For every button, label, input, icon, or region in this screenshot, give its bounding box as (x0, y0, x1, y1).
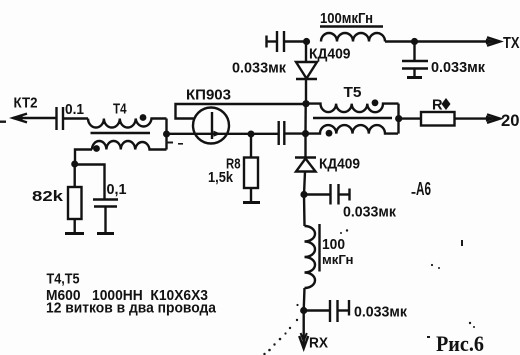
svg-text:R: R (432, 98, 443, 114)
wire D down to L2 (303, 195, 306, 227)
svg-text:100: 100 (322, 237, 345, 253)
wire R1 to ground (73, 219, 75, 234)
wire B down to C (304, 104, 307, 134)
svg-text:20: 20 (501, 111, 520, 130)
wire C3 to node C (284, 132, 305, 134)
wire T5 right side vertical (397, 104, 399, 134)
svg-text:КП903: КП903 (186, 88, 231, 104)
svg-text:100мкГн: 100мкГн (320, 11, 373, 27)
wire C4 to T4 (63, 117, 88, 119)
svg-text:А6: А6 (416, 179, 431, 199)
polarity dot T5 primary (372, 99, 379, 106)
wire E down to RX arrow (303, 311, 305, 349)
svg-text:ТХ: ТХ (503, 35, 520, 52)
wire I down to R8 (250, 134, 252, 158)
junction B (302, 100, 309, 107)
wire T4 secondary left down (75, 150, 92, 165)
resistor R2 R (421, 112, 455, 126)
channel wire through KP903 (194, 133, 230, 135)
wire C5 to ground (104, 207, 106, 234)
wire rail transistor to C3 (229, 133, 279, 135)
junction I to R8 (248, 131, 255, 138)
wire rail G to transistor (167, 133, 194, 135)
scan noise specks (0, 121, 475, 355)
junction J (395, 115, 402, 122)
svg-text:0.033мк: 0.033мк (354, 305, 408, 321)
capacitor C5 0.1 (shunt) (93, 200, 118, 207)
svg-text:Т5: Т5 (344, 85, 362, 101)
wire KT2 to C4 (13, 117, 56, 119)
polarity dot T4 primary (140, 114, 147, 121)
transformer T4 secondary winding (92, 141, 167, 150)
capacitor C7 0.033 (at RX) (304, 300, 349, 322)
resistor R8 1.5k (244, 158, 258, 189)
ground bar under C5 (97, 232, 114, 235)
choke L1 100uH (top) (321, 33, 385, 42)
resistor R1 82k (68, 187, 82, 219)
svg-text:0.1: 0.1 (65, 102, 84, 118)
junction D (300, 191, 307, 198)
transformer T5 secondary winding (306, 125, 398, 134)
choke L2 100uH (vertical) (305, 226, 316, 288)
junction A top rail (303, 38, 310, 45)
diode VD2 KD409 (pointing up) (295, 134, 316, 195)
capacitor C3 (series on rail) (279, 121, 285, 145)
transformer T4 primary winding (88, 119, 167, 128)
capacitor C4 0.1 (series, left) (57, 107, 89, 130)
svg-text:Т4: Т4 (113, 102, 127, 118)
core of T4 (91, 132, 151, 135)
junction E (300, 307, 307, 314)
node 20 arrow (487, 114, 500, 122)
wire F to TX arrow (415, 40, 500, 42)
node TX arrow (487, 37, 500, 45)
capacitor C6 0.033 (to A6) (304, 184, 350, 205)
junction C center rail (302, 130, 309, 137)
svg-text:Рис.6: Рис.6 (436, 331, 484, 355)
transistor U1 KP903 body (193, 108, 229, 144)
svg-text:82k: 82k (32, 189, 64, 205)
ground bar under C2 (407, 76, 422, 79)
gate lead hook from top (176, 104, 307, 119)
wire R2 to 20 arrow (455, 117, 500, 119)
wire L1 to junction F (385, 40, 414, 42)
wire H down to R1 (73, 164, 75, 187)
core of T5 (313, 117, 392, 120)
svg-text:0,1: 0,1 (107, 182, 127, 198)
diode VD1 KD409 (pointing down) (296, 42, 317, 104)
svg-text:0.033мк: 0.033мк (232, 61, 287, 77)
capacitor C2 0.033 (shunt at TX) (402, 42, 428, 78)
svg-text:КТ2: КТ2 (14, 96, 38, 112)
junction H (71, 161, 78, 168)
core line of L1 (320, 25, 383, 27)
ground bar under R8 (243, 201, 260, 204)
junction G T4 to rail (163, 131, 170, 138)
svg-text:КД409: КД409 (319, 157, 360, 173)
wire L2 to junction E (303, 288, 306, 311)
node RX arrow (299, 336, 308, 349)
wire R8 to ground (250, 188, 252, 203)
svg-text:12 витков в два провода: 12 витков в два провода (46, 301, 217, 317)
svg-text:1,5k: 1,5k (208, 170, 234, 186)
diamond mark after R (442, 98, 451, 110)
ground bar under R1 (65, 232, 84, 235)
gate bar of KP903 (211, 112, 213, 139)
node KT2 terminal arrow (13, 114, 56, 123)
polarity dot T4 secondary (93, 145, 100, 152)
arrow inside KP903 (214, 131, 222, 137)
capacitor C1 0.033 (top left, to TX line) (267, 31, 307, 52)
wire T4 right side vertical (165, 119, 167, 150)
polarity dot T5 secondary (326, 130, 333, 137)
svg-text:0.033мк: 0.033мк (431, 60, 486, 76)
junction F (411, 38, 418, 45)
svg-text:Т4,Т5: Т4,Т5 (47, 272, 80, 288)
wire J to R2 (399, 117, 421, 119)
svg-text:мкГн: мкГн (322, 253, 354, 267)
core line of L2 (318, 224, 320, 272)
transformer T5 primary winding (306, 104, 399, 113)
svg-text:0.033мк: 0.033мк (343, 205, 397, 221)
svg-text:КД409: КД409 (309, 47, 351, 63)
svg-text:RX: RX (309, 336, 328, 352)
wire H to C5 (75, 165, 105, 200)
